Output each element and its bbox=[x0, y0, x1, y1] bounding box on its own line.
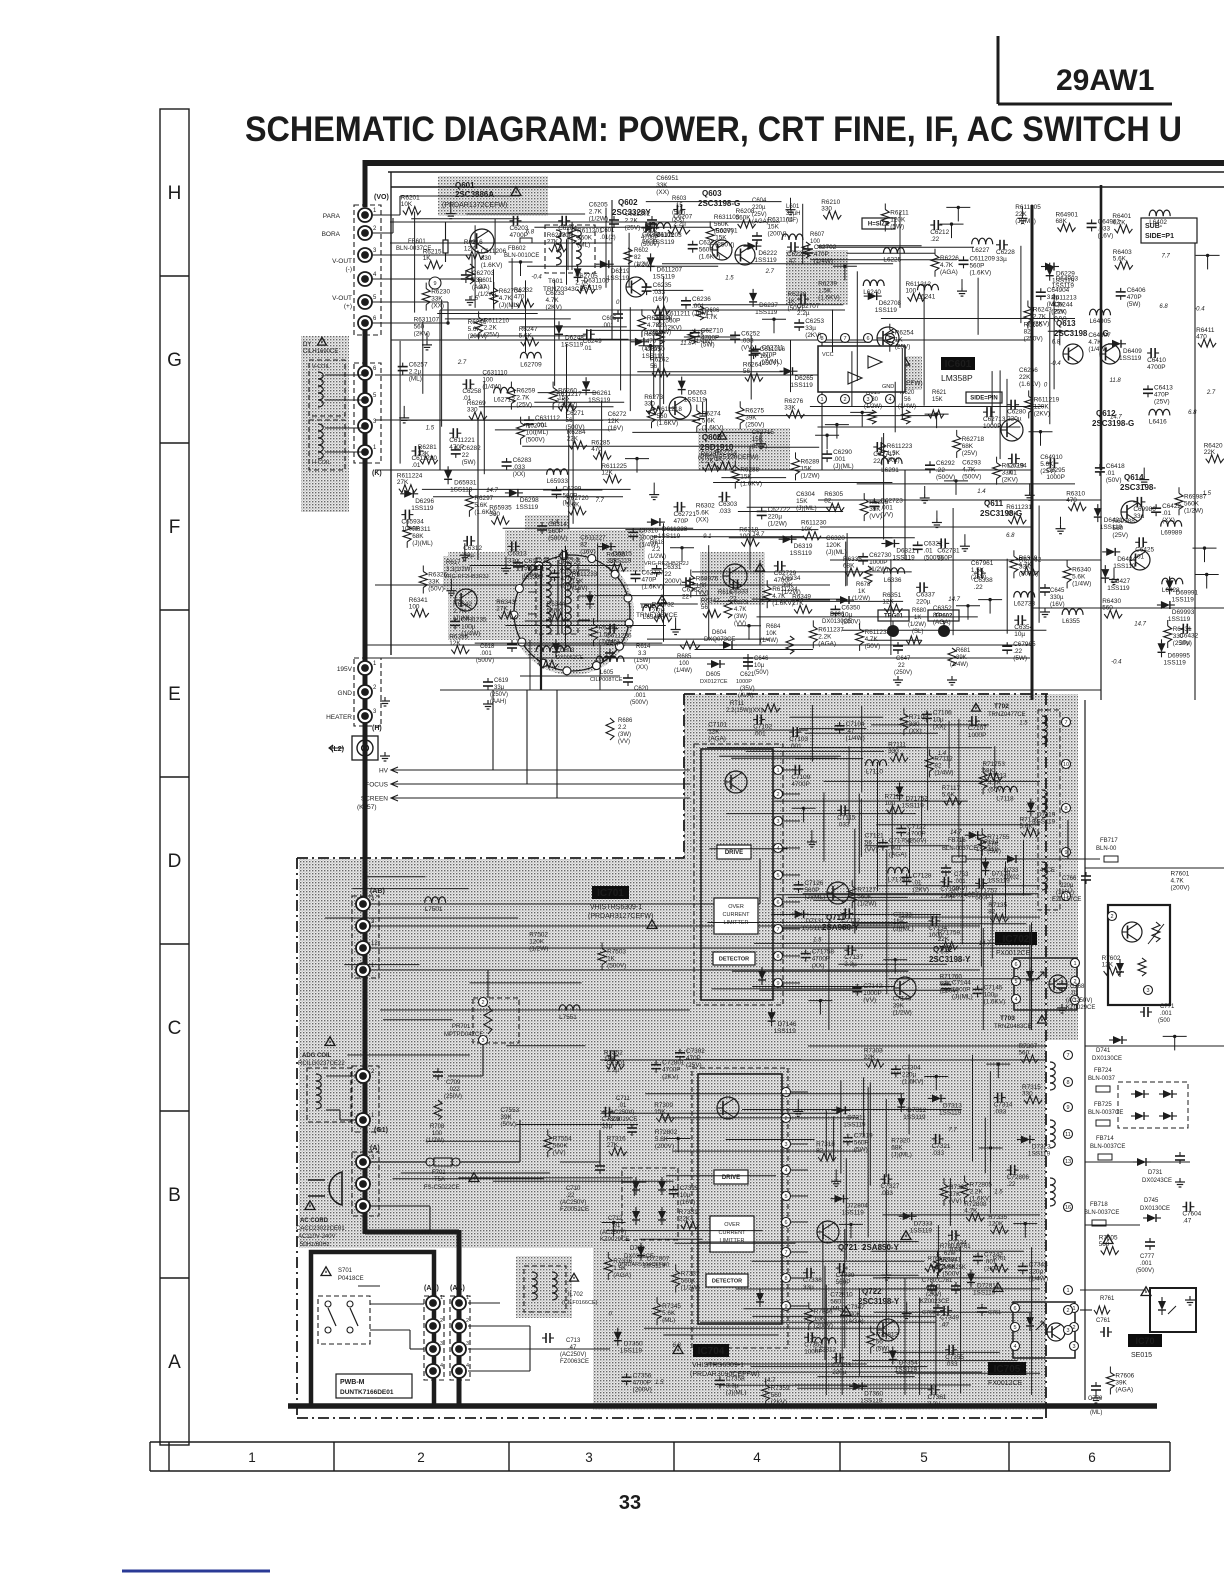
svg-text:(2KV): (2KV) bbox=[1002, 477, 1018, 484]
svg-text:560K: 560K bbox=[547, 608, 563, 615]
wire mesh ic701 bbox=[824, 780, 1040, 782]
svg-text:C605: C605 bbox=[602, 316, 617, 322]
svg-text:(PRDAR3127CEFW): (PRDAR3127CEFW) bbox=[588, 913, 653, 920]
connector strip AB dashed bbox=[352, 896, 379, 978]
svg-text:P0418CE: P0418CE bbox=[338, 1276, 364, 1282]
wire mesh ic704 bbox=[743, 1308, 842, 1310]
resistor R62704 bbox=[490, 282, 522, 310]
wire mesh ic704 bbox=[751, 1366, 928, 1368]
diode D7360 bbox=[849, 1382, 883, 1404]
svg-text:12K: 12K bbox=[708, 728, 720, 735]
svg-text:BLN-0037CE: BLN-0037CE bbox=[942, 846, 977, 852]
svg-text:(50V): (50V) bbox=[1106, 477, 1122, 484]
capacitor C7314 bbox=[994, 1093, 1013, 1116]
svg-text:4700P: 4700P bbox=[812, 956, 830, 963]
label IC705 bbox=[988, 1362, 1026, 1387]
svg-text:1000P: 1000P bbox=[869, 559, 887, 566]
wire mesh upper v bbox=[399, 341, 401, 464]
wire mesh ic701v bbox=[860, 799, 862, 857]
capacitor C605 bbox=[602, 310, 623, 329]
wire mesh upper v bbox=[899, 212, 901, 308]
svg-text:(500V): (500V) bbox=[1136, 1268, 1154, 1274]
svg-text:(XX): (XX) bbox=[656, 189, 669, 196]
wire mesh ic704v bbox=[904, 1278, 906, 1395]
value label bbox=[1024, 322, 1043, 343]
svg-text:(AC250V): (AC250V) bbox=[1066, 998, 1092, 1004]
wire mesh ic701 bbox=[774, 800, 968, 802]
diode D6219 bbox=[596, 260, 630, 282]
pin number label bbox=[1162, 254, 1171, 260]
wire mesh ic701v bbox=[891, 807, 893, 858]
resistor R6275 bbox=[736, 401, 764, 429]
wire mesh upper h bbox=[695, 649, 814, 651]
value label bbox=[971, 560, 994, 581]
wire mesh ic704v bbox=[863, 1077, 865, 1136]
svg-text:(J)(ML): (J)(ML) bbox=[726, 1389, 747, 1396]
svg-text:L62709: L62709 bbox=[520, 361, 542, 368]
svg-text:100: 100 bbox=[409, 604, 420, 611]
svg-text:C620: C620 bbox=[634, 686, 649, 692]
svg-text:C6257: C6257 bbox=[409, 362, 428, 369]
svg-text:4: 4 bbox=[1013, 1344, 1016, 1350]
capacitor C62722 bbox=[757, 506, 791, 527]
wire mesh upper v bbox=[653, 335, 655, 398]
ground C645 bbox=[1040, 608, 1050, 617]
svg-text:8: 8 bbox=[1064, 806, 1067, 812]
ground sym bbox=[1109, 568, 1119, 585]
pwb-m thick outline box bbox=[311, 1252, 434, 1406]
pin number label bbox=[765, 269, 775, 275]
label IC601 bbox=[941, 357, 975, 383]
svg-text:OVER: OVER bbox=[728, 904, 744, 910]
wire mesh ic704v bbox=[869, 1082, 871, 1185]
svg-text:(16V): (16V) bbox=[1050, 602, 1065, 608]
capacitor C7137 bbox=[844, 945, 863, 968]
svg-text:-0.4: -0.4 bbox=[1194, 306, 1205, 312]
junction node bbox=[833, 265, 857, 281]
capacitor C779 bbox=[1088, 1382, 1103, 1416]
svg-text:G: G bbox=[167, 350, 182, 371]
svg-text:(1/4W): (1/4W) bbox=[934, 769, 953, 776]
wire mesh ic704 bbox=[663, 1334, 778, 1336]
svg-text:C7102: C7102 bbox=[753, 724, 772, 731]
inductor L6416 bbox=[1149, 409, 1170, 425]
svg-text:C: C bbox=[168, 1018, 182, 1039]
wire mesh ic704 bbox=[835, 1241, 918, 1243]
wire mesh upper v bbox=[663, 277, 665, 404]
pin IC702 left 6 bbox=[1012, 960, 1021, 969]
capacitor C6223 bbox=[787, 242, 806, 265]
port circle 9 bbox=[429, 277, 441, 289]
svg-text:5: 5 bbox=[784, 1194, 787, 1200]
svg-text:(AGA): (AGA) bbox=[613, 1272, 631, 1279]
svg-text:C62726: C62726 bbox=[558, 559, 581, 566]
svg-text:(1.6KV): (1.6KV) bbox=[818, 295, 840, 302]
pin IC601 top 8 bbox=[818, 334, 827, 343]
svg-text:33µ: 33µ bbox=[1133, 513, 1144, 520]
capacitor C611211 bbox=[654, 310, 690, 331]
resistor R7331 bbox=[679, 1209, 699, 1229]
svg-text:.001: .001 bbox=[480, 651, 492, 657]
svg-text:6.8: 6.8 bbox=[1188, 410, 1197, 416]
wire mesh upper v bbox=[1020, 246, 1022, 323]
label (AB) bbox=[370, 888, 385, 895]
svg-text:Q601: Q601 bbox=[455, 181, 475, 190]
label IC702 bbox=[995, 932, 1037, 957]
svg-text:(J)(ML): (J)(ML) bbox=[499, 302, 520, 309]
svg-text:D7146: D7146 bbox=[778, 1021, 797, 1028]
svg-text:SE015: SE015 bbox=[1131, 1352, 1152, 1359]
svg-text:C7115: C7115 bbox=[837, 814, 856, 821]
ground sym bbox=[807, 830, 817, 847]
wire mesh upper h bbox=[470, 565, 620, 567]
pin right low 3 bbox=[1064, 1326, 1073, 1335]
bridge rectifier D709 box bbox=[622, 1168, 678, 1240]
resistor R6297 bbox=[465, 489, 496, 517]
ground sym bbox=[501, 557, 511, 574]
pin number label bbox=[531, 274, 542, 280]
svg-text:1: 1 bbox=[1073, 961, 1076, 967]
pin number label bbox=[703, 534, 711, 540]
resistor R6349 bbox=[792, 593, 812, 613]
svg-text:R611233: R611233 bbox=[572, 571, 598, 578]
svg-text:R6238: R6238 bbox=[788, 291, 807, 298]
wire mesh upper h bbox=[713, 482, 892, 484]
wire mesh ic704v bbox=[858, 1288, 860, 1376]
svg-text:33K: 33K bbox=[784, 405, 796, 412]
wire mesh ic704v bbox=[1031, 1247, 1033, 1395]
svg-text:(50V): (50V) bbox=[428, 586, 444, 593]
svg-text:(50V): (50V) bbox=[865, 643, 881, 650]
capacitor C620 bbox=[623, 674, 649, 706]
svg-text:(35V): (35V) bbox=[740, 686, 755, 692]
label Q611 bbox=[980, 499, 1022, 518]
svg-text:(500V): (500V) bbox=[630, 700, 648, 706]
junction node bbox=[944, 479, 968, 495]
svg-text:C709: C709 bbox=[446, 1080, 461, 1086]
svg-text:(25V): (25V) bbox=[1040, 468, 1056, 475]
pin T703 9 bbox=[1064, 1103, 1073, 1112]
capacitor C7106 bbox=[922, 709, 952, 730]
value label bbox=[655, 1129, 678, 1150]
capacitor C62721 bbox=[674, 502, 697, 525]
wire mesh ic701v bbox=[991, 894, 993, 959]
resistor R6288 bbox=[731, 461, 762, 489]
svg-text:C710: C710 bbox=[566, 1186, 581, 1192]
svg-text:4: 4 bbox=[466, 1363, 469, 1369]
svg-text:1.5: 1.5 bbox=[813, 938, 822, 944]
transistor Q605 bbox=[669, 397, 691, 419]
svg-text:C6422: C6422 bbox=[1162, 503, 1181, 510]
svg-text:C62729: C62729 bbox=[774, 570, 797, 577]
diode D6261 bbox=[582, 377, 611, 404]
shaded region R631 VR bbox=[786, 250, 848, 305]
svg-text:14.7: 14.7 bbox=[764, 1378, 776, 1384]
svg-text:(VO): (VO) bbox=[374, 194, 389, 201]
svg-text:120K: 120K bbox=[529, 939, 545, 946]
pin IC704 p5 bbox=[782, 1192, 791, 1201]
pin IC701 p1 bbox=[774, 766, 783, 775]
svg-text:(AGA): (AGA) bbox=[708, 735, 726, 742]
svg-text:330: 330 bbox=[1022, 1090, 1033, 1097]
inductor L7118 bbox=[996, 786, 1017, 802]
svg-text:C7338: C7338 bbox=[803, 1277, 822, 1284]
svg-text:L6402: L6402 bbox=[1149, 219, 1167, 226]
svg-text:1K: 1K bbox=[423, 255, 432, 262]
svg-text:R7502: R7502 bbox=[529, 932, 548, 939]
svg-text:22K: 22K bbox=[679, 1216, 691, 1223]
svg-text:C647: C647 bbox=[896, 656, 911, 662]
svg-text:C6280: C6280 bbox=[1007, 409, 1026, 416]
svg-text:.001: .001 bbox=[833, 456, 846, 463]
label C711 bbox=[608, 1096, 637, 1136]
terminal pin5 A3 bbox=[356, 1199, 370, 1213]
pin number label bbox=[1159, 304, 1168, 310]
svg-text:2.7K: 2.7K bbox=[516, 395, 530, 402]
wire mesh upper v bbox=[832, 309, 834, 352]
capacitor C7115 bbox=[837, 805, 856, 828]
capacitor C7325 bbox=[669, 1185, 699, 1206]
test point TPG01 bbox=[878, 610, 909, 637]
wire mesh upper v bbox=[628, 233, 630, 287]
wire mesh ic701 bbox=[783, 927, 906, 929]
svg-text:33µ: 33µ bbox=[803, 1284, 814, 1291]
terminal AA1 pin 4 bbox=[426, 1363, 443, 1378]
svg-text:D: D bbox=[168, 851, 182, 872]
pin IC701 p2 bbox=[774, 790, 783, 799]
svg-text:(200V): (200V) bbox=[655, 1143, 674, 1150]
value label bbox=[788, 291, 807, 312]
resistor R6343 bbox=[496, 599, 516, 619]
capacitor C7104 bbox=[835, 721, 865, 742]
wire right inner boundary bbox=[1084, 700, 1086, 1400]
wire mesh lowerleft bbox=[516, 1124, 638, 1126]
svg-text:R761: R761 bbox=[1100, 1296, 1115, 1302]
svg-text:TRNZ0483CE: TRNZ0483CE bbox=[994, 1024, 1032, 1030]
wire mesh upper h bbox=[586, 329, 711, 331]
wire mesh upper v bbox=[566, 344, 568, 419]
wire mesh upper h bbox=[445, 318, 571, 320]
svg-text:-0.4: -0.4 bbox=[1111, 660, 1122, 666]
svg-text:1SS119: 1SS119 bbox=[1113, 563, 1136, 570]
svg-text:R7127: R7127 bbox=[857, 886, 876, 893]
shaded region Q601 label bbox=[438, 176, 548, 216]
wire mesh upper v bbox=[901, 349, 903, 420]
svg-text:560P: 560P bbox=[699, 247, 714, 254]
svg-text:82: 82 bbox=[580, 541, 588, 548]
svg-text:1SS119: 1SS119 bbox=[652, 239, 675, 246]
wire mesh ic704 bbox=[871, 1250, 1024, 1252]
wire mesh upper h bbox=[693, 304, 844, 306]
svg-text:560: 560 bbox=[1019, 1049, 1030, 1056]
svg-text:39K: 39K bbox=[1115, 1380, 1127, 1387]
svg-text:82: 82 bbox=[934, 762, 942, 769]
resistor R678 bbox=[852, 566, 872, 602]
svg-text:L64905: L64905 bbox=[1090, 318, 1112, 325]
svg-text:R7601: R7601 bbox=[1171, 871, 1190, 878]
svg-text:PARA: PARA bbox=[323, 213, 341, 220]
svg-text:R67962: R67962 bbox=[1019, 556, 1042, 563]
wire mesh upper h bbox=[467, 213, 586, 215]
ground sym bbox=[756, 432, 766, 449]
svg-text:C7314: C7314 bbox=[994, 1102, 1013, 1109]
svg-text:D69995: D69995 bbox=[1168, 652, 1191, 659]
svg-text:560K: 560K bbox=[553, 1142, 569, 1149]
svg-text:AC CORD: AC CORD bbox=[300, 1218, 329, 1224]
wire mesh ic704v bbox=[908, 1055, 910, 1135]
svg-text:1.5K: 1.5K bbox=[818, 288, 832, 295]
capacitor C6295 bbox=[1046, 458, 1065, 481]
svg-text:1SS119: 1SS119 bbox=[973, 1290, 996, 1297]
capacitor C7107 bbox=[968, 716, 987, 739]
svg-text:VHISTRS6309-1: VHISTRS6309-1 bbox=[590, 904, 642, 911]
value label bbox=[1112, 518, 1135, 539]
svg-text:C611232: C611232 bbox=[524, 558, 550, 565]
terminal AB pin 3 bbox=[356, 919, 375, 933]
transistor Q712 bbox=[894, 977, 916, 999]
svg-text:7.7: 7.7 bbox=[596, 498, 605, 504]
pin T703 8 bbox=[1064, 1078, 1073, 1087]
pin IC701 p8 bbox=[774, 952, 783, 961]
svg-text:(25V): (25V) bbox=[971, 574, 987, 581]
wire mesh ic701 bbox=[759, 989, 958, 991]
svg-text:2.2K: 2.2K bbox=[818, 633, 832, 640]
resistor R64901 bbox=[1056, 212, 1079, 232]
svg-text:HEATER: HEATER bbox=[326, 714, 352, 721]
svg-text:1SS119: 1SS119 bbox=[588, 397, 611, 404]
wire mesh upper h bbox=[738, 511, 843, 513]
wire main top bus thick bbox=[364, 160, 1224, 166]
resistor R6411 bbox=[1196, 327, 1216, 347]
warning tri lower2 bbox=[993, 1283, 1003, 1292]
capacitor C6354 bbox=[1014, 615, 1033, 638]
value label bbox=[414, 317, 440, 338]
svg-text:R6259: R6259 bbox=[516, 388, 535, 395]
terminal VO pin 4 bbox=[358, 272, 377, 286]
svg-text:MPTPD047CE: MPTPD047CE bbox=[444, 1032, 483, 1038]
svg-text:.01: .01 bbox=[1162, 510, 1171, 517]
value label bbox=[940, 974, 963, 995]
svg-text:15K: 15K bbox=[715, 234, 727, 241]
svg-text:R7341: R7341 bbox=[943, 1257, 962, 1264]
svg-text:4.7K: 4.7K bbox=[940, 262, 954, 269]
wire mesh upper h bbox=[411, 218, 519, 220]
ground sym bbox=[882, 1263, 892, 1280]
svg-text:R7606: R7606 bbox=[1115, 1373, 1134, 1380]
svg-text:(16V): (16V) bbox=[1098, 232, 1114, 239]
wire mesh upper h bbox=[742, 415, 938, 417]
svg-text:(500V): (500V) bbox=[936, 474, 955, 481]
terminal AB pin 1 bbox=[356, 963, 375, 977]
svg-text:C713: C713 bbox=[566, 1338, 581, 1344]
svg-text:22K: 22K bbox=[1019, 374, 1031, 381]
wire yoke to K6 bbox=[325, 375, 365, 400]
wire mesh upper h bbox=[625, 529, 818, 531]
svg-text:(AGA): (AGA) bbox=[940, 269, 958, 276]
svg-text:470: 470 bbox=[1196, 334, 1207, 341]
wire mesh upper v bbox=[999, 370, 1001, 459]
capacitor C645 bbox=[1040, 584, 1065, 608]
svg-text:50Hz/60Hz: 50Hz/60Hz bbox=[300, 1242, 330, 1248]
inductor L6227 bbox=[972, 238, 993, 254]
pin IC705 right 1 bbox=[1070, 1304, 1079, 1313]
svg-text:C64910: C64910 bbox=[1040, 454, 1063, 461]
pin IC704 p3 bbox=[782, 1140, 791, 1149]
resistor R6284 bbox=[567, 429, 587, 449]
shaded region Q604 label bbox=[866, 356, 922, 390]
block DRIVE IC701 bbox=[717, 845, 751, 859]
wire mesh upper v bbox=[790, 340, 792, 392]
svg-text:(2KV): (2KV) bbox=[984, 1266, 1000, 1273]
capacitor C646 bbox=[743, 654, 769, 676]
svg-text:.01(2): .01(2) bbox=[600, 235, 616, 241]
pin number label bbox=[977, 489, 986, 495]
svg-text:R685: R685 bbox=[677, 654, 692, 660]
svg-text:.22: .22 bbox=[936, 467, 945, 474]
svg-text:D604: D604 bbox=[712, 630, 727, 636]
svg-text:.022: .022 bbox=[448, 1087, 460, 1093]
svg-text:1K: 1K bbox=[607, 956, 616, 963]
wire net h12 bbox=[365, 644, 1032, 646]
junction node bbox=[737, 624, 761, 640]
wire mesh upper h bbox=[646, 201, 782, 203]
svg-text:T5A: T5A bbox=[434, 1177, 445, 1183]
svg-text:27K: 27K bbox=[987, 841, 999, 848]
svg-text:4700P: 4700P bbox=[791, 781, 809, 788]
svg-text:1K: 1K bbox=[715, 456, 724, 463]
svg-text:R686: R686 bbox=[618, 718, 633, 724]
svg-text:(1.6KV): (1.6KV) bbox=[657, 420, 679, 427]
wire aa nets bbox=[468, 1303, 610, 1371]
resistor R601 bbox=[466, 264, 496, 298]
svg-text:C6253: C6253 bbox=[805, 318, 824, 325]
svg-text:Q721: Q721 bbox=[838, 1243, 858, 1252]
svg-text:C7604: C7604 bbox=[1182, 1211, 1201, 1218]
wire mesh upper h bbox=[595, 595, 707, 597]
svg-text:(250V): (250V) bbox=[1024, 336, 1043, 343]
svg-text:22: 22 bbox=[873, 458, 881, 465]
flyback transformer T602 body bbox=[510, 552, 633, 675]
capacitor C62703 bbox=[461, 270, 495, 291]
value label bbox=[572, 571, 598, 592]
svg-text:6: 6 bbox=[784, 1220, 787, 1226]
shaded region IC701 block bbox=[684, 694, 1078, 1040]
capacitors C780 C781 bbox=[920, 1278, 961, 1305]
connector strip H dashed bbox=[354, 658, 381, 726]
svg-text:C6282: C6282 bbox=[462, 445, 481, 452]
svg-text:1SS119: 1SS119 bbox=[774, 1028, 797, 1035]
diode D6424 bbox=[1102, 548, 1136, 570]
svg-text:5.6K: 5.6K bbox=[474, 502, 488, 509]
pin number label bbox=[463, 558, 467, 564]
resistor R6218 bbox=[547, 232, 567, 252]
svg-text:R6226: R6226 bbox=[940, 255, 959, 262]
svg-text:C7143: C7143 bbox=[893, 996, 912, 1003]
capacitor C7319 bbox=[843, 1133, 873, 1154]
svg-text:(1/2W): (1/2W) bbox=[801, 472, 820, 479]
svg-text:C7325: C7325 bbox=[680, 1185, 699, 1192]
svg-text:R631104: R631104 bbox=[768, 216, 794, 223]
svg-text:2: 2 bbox=[784, 1116, 787, 1122]
terminal pin1 G1 bbox=[356, 1113, 388, 1134]
svg-text:C766: C766 bbox=[1062, 876, 1077, 882]
svg-text:L6336: L6336 bbox=[884, 577, 902, 584]
wire net h8 bbox=[820, 526, 1032, 528]
resistor R6330 bbox=[606, 551, 626, 571]
svg-text:C6331: C6331 bbox=[663, 564, 682, 571]
resistor R611231 bbox=[1006, 504, 1032, 524]
svg-text:R71755: R71755 bbox=[987, 834, 1010, 841]
